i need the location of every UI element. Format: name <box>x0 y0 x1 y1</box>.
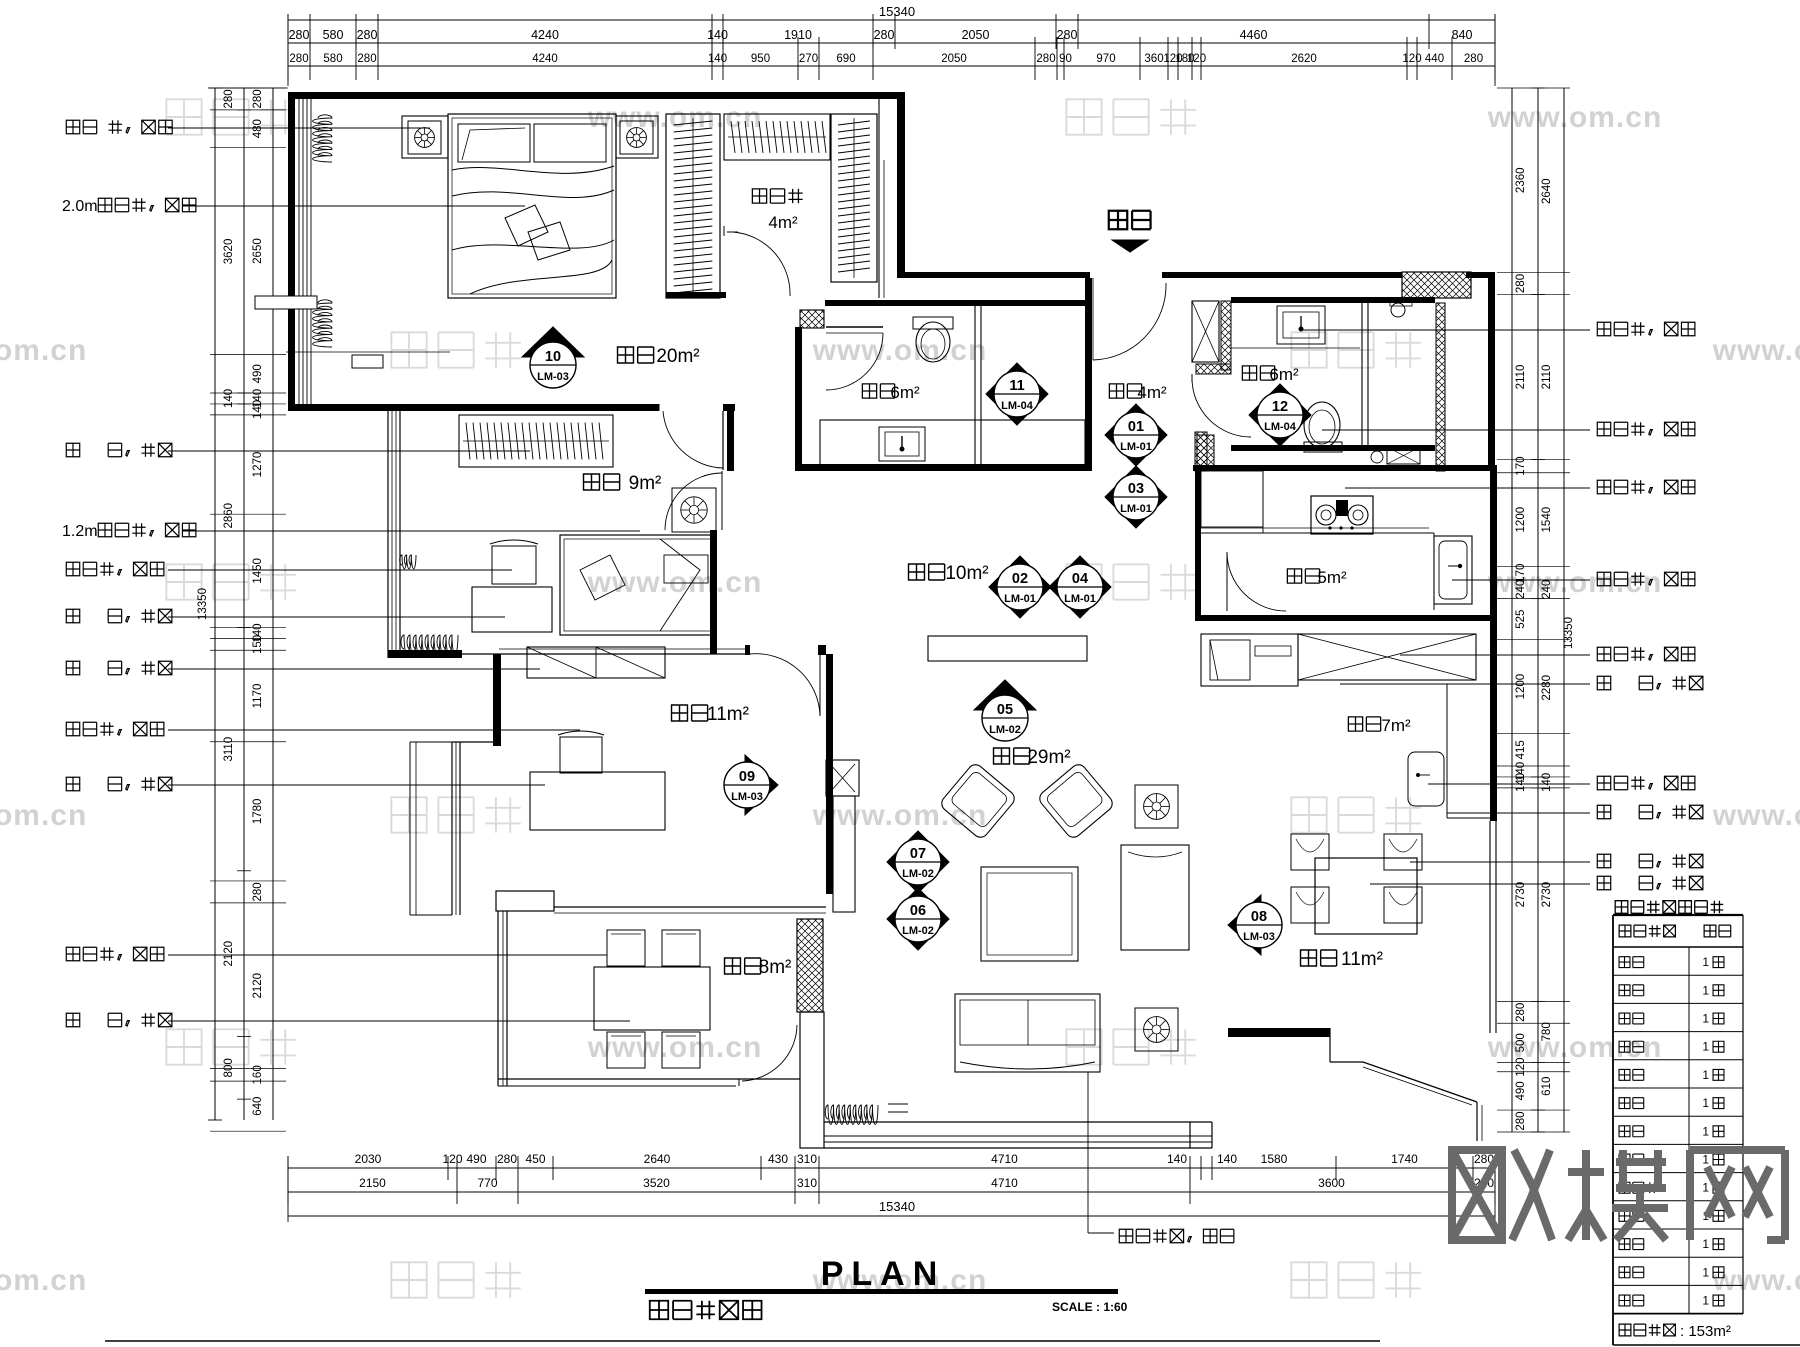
svg-text:360: 360 <box>1144 53 1163 65</box>
svg-text:800: 800 <box>223 1058 235 1077</box>
svg-text:www.om.cn: www.om.cn <box>1487 1031 1663 1064</box>
svg-text:7m²: 7m² <box>1381 716 1411 735</box>
balcony steps bottom right <box>1329 1028 1331 1062</box>
right label sink <box>1597 572 1695 585</box>
svg-text:LM-02: LM-02 <box>989 724 1021 736</box>
svg-text:415: 415 <box>1515 740 1527 759</box>
room label kitchen cn <box>1287 569 1319 583</box>
bar sink <box>1408 752 1444 806</box>
wall below public bath (x1195 column) <box>1195 432 1207 471</box>
svg-text:120: 120 <box>1402 53 1421 65</box>
room label living room <box>994 748 1030 764</box>
sofa long bottom <box>955 994 1100 1072</box>
svg-text:12: 12 <box>1272 399 1288 415</box>
svg-text:LM-03: LM-03 <box>1243 931 1275 943</box>
tea room table <box>594 967 710 1030</box>
svg-text:11m²: 11m² <box>707 704 749 725</box>
public bath shower partition <box>1361 303 1363 445</box>
master bath crosshatch block <box>800 310 824 328</box>
svg-text:LM-01: LM-01 <box>1004 593 1036 605</box>
svg-text:4710: 4710 <box>991 1176 1018 1190</box>
svg-text:240: 240 <box>1515 580 1527 599</box>
svg-text:05: 05 <box>997 702 1013 718</box>
tea room chairs <box>607 930 645 966</box>
left label chair2 <box>66 722 164 735</box>
gas stove <box>1311 496 1373 534</box>
room label second bedroom <box>584 474 620 490</box>
svg-text:2640: 2640 <box>644 1152 671 1166</box>
title chinese 平面布置图 <box>650 1301 762 1319</box>
side table with flower top <box>1135 785 1178 828</box>
svg-text:www.om.cn: www.om.cn <box>587 566 763 599</box>
svg-text:4m²: 4m² <box>1137 383 1167 402</box>
tearoom door arc <box>742 1025 797 1081</box>
master bed <box>448 114 616 298</box>
svg-text:4460: 4460 <box>1240 28 1268 42</box>
living armchair 1 <box>939 762 1018 841</box>
corridor/bedroom divider wall (vertical x~727) <box>727 411 734 471</box>
right label gas stove <box>1597 480 1695 493</box>
svg-text:580: 580 <box>323 53 342 65</box>
curtain coils master bedroom left top <box>313 115 332 162</box>
master bath right wall <box>1085 278 1092 470</box>
svg-text:www.om.cn: www.om.cn <box>1712 1264 1800 1297</box>
svg-text:1: 1 <box>1702 1012 1709 1026</box>
svg-text:LM-02: LM-02 <box>902 868 934 880</box>
right label appliance cabinet <box>1597 647 1695 660</box>
svg-text:2110: 2110 <box>1515 365 1527 390</box>
svg-text:www.om.cn: www.om.cn <box>1712 799 1800 832</box>
svg-text:www.om.cn: www.om.cn <box>0 1264 87 1297</box>
bedside table right <box>616 116 658 158</box>
hall cabinet with X <box>1192 301 1219 362</box>
left label chair1 <box>66 562 164 575</box>
svg-text:3600: 3600 <box>1318 1176 1345 1190</box>
public bath washbasin <box>1277 306 1325 344</box>
svg-text:280: 280 <box>1515 1111 1527 1130</box>
svg-text:1170: 1170 <box>252 684 264 709</box>
left label desk2 <box>66 777 172 790</box>
tearoom bottom wall <box>498 1078 800 1080</box>
bedroom2 curtain coil <box>401 635 458 654</box>
second bedroom right wall lower <box>710 530 717 654</box>
bar counter <box>1446 684 1448 818</box>
svg-text:2150: 2150 <box>359 1176 386 1190</box>
svg-text:2620: 2620 <box>1291 53 1317 65</box>
left label chair3 <box>66 947 164 960</box>
svg-text:1: 1 <box>1702 1265 1709 1279</box>
svg-text:02: 02 <box>1012 571 1028 587</box>
svg-text:6m²: 6m² <box>1269 365 1299 384</box>
svg-text:06: 06 <box>910 903 926 919</box>
svg-text:1200: 1200 <box>1515 507 1527 533</box>
svg-text:280: 280 <box>223 89 235 108</box>
kitchen door arc <box>1227 552 1286 611</box>
svg-text:490: 490 <box>252 364 264 383</box>
svg-text:10m²: 10m² <box>945 563 988 584</box>
svg-text:15340: 15340 <box>879 1199 915 1214</box>
top dimension chains <box>288 19 1495 21</box>
master bath vanity counter <box>820 420 1085 466</box>
second bedroom bed <box>560 535 715 635</box>
legend table <box>1615 901 1723 914</box>
svg-text:11: 11 <box>1009 378 1024 394</box>
bedside table left <box>402 116 448 158</box>
svg-text:1: 1 <box>1702 1040 1709 1054</box>
svg-text:280: 280 <box>1036 53 1055 65</box>
svg-text:2110: 2110 <box>1541 365 1553 390</box>
fridge inner <box>1255 646 1291 656</box>
marker 03 <box>1105 466 1167 528</box>
svg-text:2120: 2120 <box>252 973 264 999</box>
svg-text:2120: 2120 <box>223 941 235 967</box>
svg-text:2730: 2730 <box>1541 882 1553 908</box>
room label walk-in closet <box>752 189 802 203</box>
svg-text:1740: 1740 <box>1391 1152 1418 1166</box>
public bath bottom wall <box>1231 445 1435 451</box>
svg-text:LM-01: LM-01 <box>1120 441 1152 453</box>
left exterior wall with window mullions <box>288 92 295 411</box>
svg-text:9m²: 9m² <box>629 473 662 494</box>
master bath washbasin <box>879 427 925 461</box>
svg-text:280: 280 <box>357 28 378 42</box>
kitchen counters <box>1201 532 1434 534</box>
second bedroom window wall left <box>387 411 389 658</box>
master bath pocket door <box>826 326 883 328</box>
right label fridge <box>1597 676 1703 689</box>
west kitchen right wall <box>1490 621 1497 821</box>
svg-text:160: 160 <box>252 1065 264 1084</box>
svg-text:3620: 3620 <box>223 239 235 265</box>
svg-text:6m²: 6m² <box>890 383 920 402</box>
svg-text:www.om.cn: www.om.cn <box>1712 334 1800 367</box>
svg-text:PLAN: PLAN <box>821 1255 946 1293</box>
marker 12 <box>1249 384 1311 446</box>
svg-text:LM-03: LM-03 <box>731 791 763 803</box>
svg-text:280: 280 <box>252 89 264 108</box>
tearoom/living hatched column <box>797 919 823 1012</box>
svg-text:10: 10 <box>545 349 561 365</box>
left label wardrobe <box>66 443 172 456</box>
svg-text:90: 90 <box>1059 53 1072 65</box>
svg-text:2.0m: 2.0m <box>62 198 98 215</box>
master bath left wall <box>795 327 802 466</box>
svg-text:SCALE : 1:60: SCALE : 1:60 <box>1052 1300 1128 1314</box>
left label bedside table <box>66 120 172 133</box>
svg-text:1: 1 <box>1702 1181 1709 1195</box>
bottom label double sofa <box>1087 1072 1089 1233</box>
bedroom bottom wall <box>288 404 659 411</box>
closet door arc <box>733 232 790 296</box>
top exterior wall <box>288 92 905 99</box>
svg-text:690: 690 <box>836 53 855 65</box>
svg-text:3110: 3110 <box>223 737 235 762</box>
kitchen sink <box>1434 536 1472 604</box>
svg-text:4240: 4240 <box>532 53 558 65</box>
svg-text:310: 310 <box>797 1152 817 1166</box>
svg-text:1: 1 <box>1702 1096 1709 1110</box>
svg-text:280: 280 <box>289 28 310 42</box>
svg-text:2650: 2650 <box>252 238 264 264</box>
svg-text:1540: 1540 <box>1541 507 1553 533</box>
entry top wall left of door <box>905 272 1090 278</box>
top-right crosshatch corner block <box>1402 272 1471 298</box>
svg-text:LM-02: LM-02 <box>902 925 934 937</box>
column below tearoom door <box>800 1012 824 1148</box>
bedroom2 chair <box>492 546 536 584</box>
svg-text:280: 280 <box>1464 53 1483 65</box>
room label kitchen west <box>1348 717 1380 731</box>
svg-text:29m²: 29m² <box>1027 747 1070 768</box>
left label tea table <box>66 1013 172 1026</box>
svg-text:11m²: 11m² <box>1341 949 1383 970</box>
public bath toilet <box>1304 402 1340 448</box>
svg-text:08: 08 <box>1251 909 1267 925</box>
svg-text:07: 07 <box>910 846 926 862</box>
master bath walls <box>825 300 1090 306</box>
marker 08 <box>1228 895 1282 955</box>
svg-text:280: 280 <box>1057 28 1078 42</box>
svg-text:2640: 2640 <box>1541 178 1553 204</box>
bedroom2 desk <box>472 587 552 632</box>
svg-text:13350: 13350 <box>197 588 209 620</box>
master bedroom door jambs and arc <box>658 404 660 411</box>
study left bay window <box>451 742 453 915</box>
svg-text:3520: 3520 <box>643 1176 670 1190</box>
svg-text:120: 120 <box>442 1152 462 1166</box>
svg-text:280: 280 <box>357 53 376 65</box>
svg-text:240: 240 <box>1541 580 1553 599</box>
svg-text:280: 280 <box>289 53 308 65</box>
svg-text:525: 525 <box>1515 610 1527 629</box>
svg-text:1: 1 <box>1702 955 1709 969</box>
svg-text:770: 770 <box>477 1176 497 1190</box>
svg-text:140: 140 <box>223 389 235 408</box>
entry door leaf and arc <box>1087 278 1089 360</box>
svg-text:13350: 13350 <box>1563 617 1575 649</box>
svg-text:1: 1 <box>1702 1294 1709 1308</box>
flower box bedroom2 <box>672 488 716 532</box>
dining chairs <box>1291 834 1329 870</box>
svg-text:280: 280 <box>497 1152 517 1166</box>
appliance cabinet band with X and fridge <box>1298 634 1476 680</box>
right label sink2 <box>1597 776 1695 789</box>
svg-text:280: 280 <box>1515 274 1527 293</box>
bookshelf study <box>527 647 665 678</box>
second bedroom closet (top) <box>459 415 613 467</box>
right label dining table <box>1597 876 1703 889</box>
bottom window band living room <box>824 1121 1212 1123</box>
svg-text:310: 310 <box>797 1176 817 1190</box>
svg-text:450: 450 <box>525 1152 545 1166</box>
svg-text:1780: 1780 <box>252 799 264 825</box>
corner wall x900 <box>897 92 905 278</box>
svg-text:2030: 2030 <box>355 1152 382 1166</box>
svg-text:490: 490 <box>1515 1081 1527 1100</box>
dining table <box>1315 858 1417 934</box>
marker 07 <box>887 831 949 893</box>
svg-text:2860: 2860 <box>223 503 235 529</box>
master bath toilet <box>913 317 953 329</box>
wall bottom of closet <box>666 292 726 298</box>
room label study <box>672 705 708 721</box>
bottom rule line <box>105 1340 1380 1342</box>
wardrobe left of walk-in closet <box>666 114 720 298</box>
svg-text:640: 640 <box>252 1097 264 1116</box>
svg-text:1580: 1580 <box>1261 1152 1288 1166</box>
marker 06 <box>887 888 949 950</box>
svg-text:www.om.cn: www.om.cn <box>1487 101 1663 134</box>
kitchen walls <box>1193 465 1497 471</box>
walk-in closet top closet <box>724 114 830 160</box>
svg-text:270: 270 <box>799 53 818 65</box>
svg-text:140: 140 <box>1167 1152 1187 1166</box>
svg-text:1: 1 <box>1702 1153 1709 1167</box>
room label dining <box>1301 950 1337 966</box>
svg-text:1450: 1450 <box>252 558 264 584</box>
svg-text:500: 500 <box>1515 1033 1527 1052</box>
svg-text:03: 03 <box>1128 481 1144 497</box>
svg-text:LM-01: LM-01 <box>1120 503 1152 515</box>
living room feature wall <box>826 760 859 796</box>
svg-text:15340: 15340 <box>879 4 915 19</box>
room label hall <box>1109 384 1141 398</box>
left label desk1 <box>66 609 172 622</box>
tearoom left wall <box>497 911 499 1086</box>
left dimension chains <box>214 88 216 1120</box>
study door arc <box>750 654 820 716</box>
svg-text:www.om.cn: www.om.cn <box>812 799 988 832</box>
legend footer area 153m2 <box>1619 1324 1675 1336</box>
svg-text:140: 140 <box>1541 773 1553 792</box>
svg-text:1: 1 <box>1702 983 1709 997</box>
svg-text:LM-04: LM-04 <box>1264 421 1297 433</box>
marker 02 <box>989 556 1051 618</box>
svg-text:780: 780 <box>1541 1022 1553 1041</box>
room label tea room <box>725 958 761 974</box>
svg-text:5m²: 5m² <box>1317 568 1347 587</box>
svg-text:490: 490 <box>466 1152 486 1166</box>
marker 05 <box>974 680 1036 741</box>
svg-text:280: 280 <box>874 28 895 42</box>
svg-text:140: 140 <box>252 400 264 419</box>
svg-text:2050: 2050 <box>962 28 990 42</box>
svg-text:1200: 1200 <box>1515 674 1527 700</box>
entrance label 入口 arrow <box>1112 240 1148 252</box>
second bedroom door arc <box>665 473 722 530</box>
svg-text:LM-03: LM-03 <box>537 371 569 383</box>
right label dining chair <box>1597 854 1703 867</box>
svg-text:430: 430 <box>768 1152 788 1166</box>
svg-text:150: 150 <box>252 635 264 654</box>
left label bookcase <box>66 661 172 674</box>
bottom dimension chains <box>288 1167 1495 1169</box>
svg-text:www.om.cn: www.om.cn <box>0 334 87 367</box>
svg-text:280: 280 <box>252 882 264 901</box>
marker 01 <box>1105 404 1167 466</box>
big watermark <box>1452 1150 1552 1240</box>
coffee table <box>981 867 1078 961</box>
dining bottom wall <box>1228 1028 1330 1037</box>
room label public bath <box>1242 366 1274 380</box>
study/tearoom divider wall <box>496 891 554 911</box>
svg-text:950: 950 <box>751 53 770 65</box>
radiator coil bottom <box>825 1105 878 1124</box>
svg-text:140: 140 <box>1217 1152 1237 1166</box>
svg-text:280: 280 <box>1515 1003 1527 1022</box>
svg-text:: 153m²: : 153m² <box>1680 1323 1731 1340</box>
marker 10 <box>522 327 584 388</box>
svg-text:2360: 2360 <box>1515 167 1527 193</box>
entry top wall right of door <box>1162 272 1402 278</box>
svg-text:610: 610 <box>1541 1077 1553 1096</box>
svg-text:www.om.cn: www.om.cn <box>587 101 763 134</box>
svg-text:480: 480 <box>252 119 264 138</box>
marker 04 <box>1049 556 1111 618</box>
kitchen hatched column left <box>1197 435 1214 469</box>
right label bar <box>1597 805 1703 818</box>
right exterior wall upper <box>1488 278 1495 471</box>
svg-text:8m²: 8m² <box>759 957 792 978</box>
room label corridor <box>909 564 945 580</box>
right label washbasin1 <box>1597 322 1695 335</box>
study top wall <box>493 654 501 746</box>
side table with flower bottom <box>1135 1008 1178 1051</box>
svg-text:www.om.cn: www.om.cn <box>0 799 87 832</box>
svg-text:1: 1 <box>1702 1068 1709 1082</box>
corridor cabinet <box>928 636 1087 661</box>
hall bottom wall segment <box>795 464 1092 471</box>
svg-text:LM-04: LM-04 <box>1001 400 1034 412</box>
shower head symbol <box>1391 303 1405 317</box>
walk-in closet right closet <box>831 114 877 282</box>
svg-text:440: 440 <box>1425 53 1444 65</box>
svg-text:20m²: 20m² <box>656 346 699 367</box>
svg-text:2730: 2730 <box>1515 882 1527 908</box>
wall right of hatch block <box>1466 272 1495 278</box>
study chair <box>560 737 602 773</box>
room label master bath <box>862 384 894 398</box>
svg-text:120: 120 <box>1515 1057 1527 1076</box>
svg-text:09: 09 <box>739 769 755 785</box>
svg-text:4240: 4240 <box>531 28 559 42</box>
svg-text:140: 140 <box>708 53 727 65</box>
svg-text:4710: 4710 <box>991 1152 1018 1166</box>
svg-text:LM-01: LM-01 <box>1064 593 1096 605</box>
svg-text:970: 970 <box>1096 53 1115 65</box>
entrance label <box>1109 211 1151 229</box>
svg-text:04: 04 <box>1072 571 1088 587</box>
marker 09 <box>724 755 778 815</box>
public bath right hatched wall <box>1436 303 1445 471</box>
study desk <box>530 772 665 830</box>
svg-text:01: 01 <box>1128 419 1144 435</box>
watermark grid <box>166 99 295 134</box>
hall-to-bath door <box>1192 378 1251 437</box>
living armchair 2 <box>1037 762 1116 841</box>
room label master bedroom <box>618 347 654 363</box>
svg-text:2280: 2280 <box>1541 675 1553 701</box>
right dimension chains <box>1511 88 1513 1132</box>
corner sofa vertical part <box>1121 845 1189 950</box>
second bedroom bottom-left wall step <box>388 650 462 658</box>
master bath shower partition <box>974 306 976 466</box>
svg-text:840: 840 <box>1452 28 1473 42</box>
svg-text:580: 580 <box>323 28 344 42</box>
marker 11 <box>986 363 1048 425</box>
svg-text:140: 140 <box>707 28 728 42</box>
svg-text:2050: 2050 <box>941 53 967 65</box>
